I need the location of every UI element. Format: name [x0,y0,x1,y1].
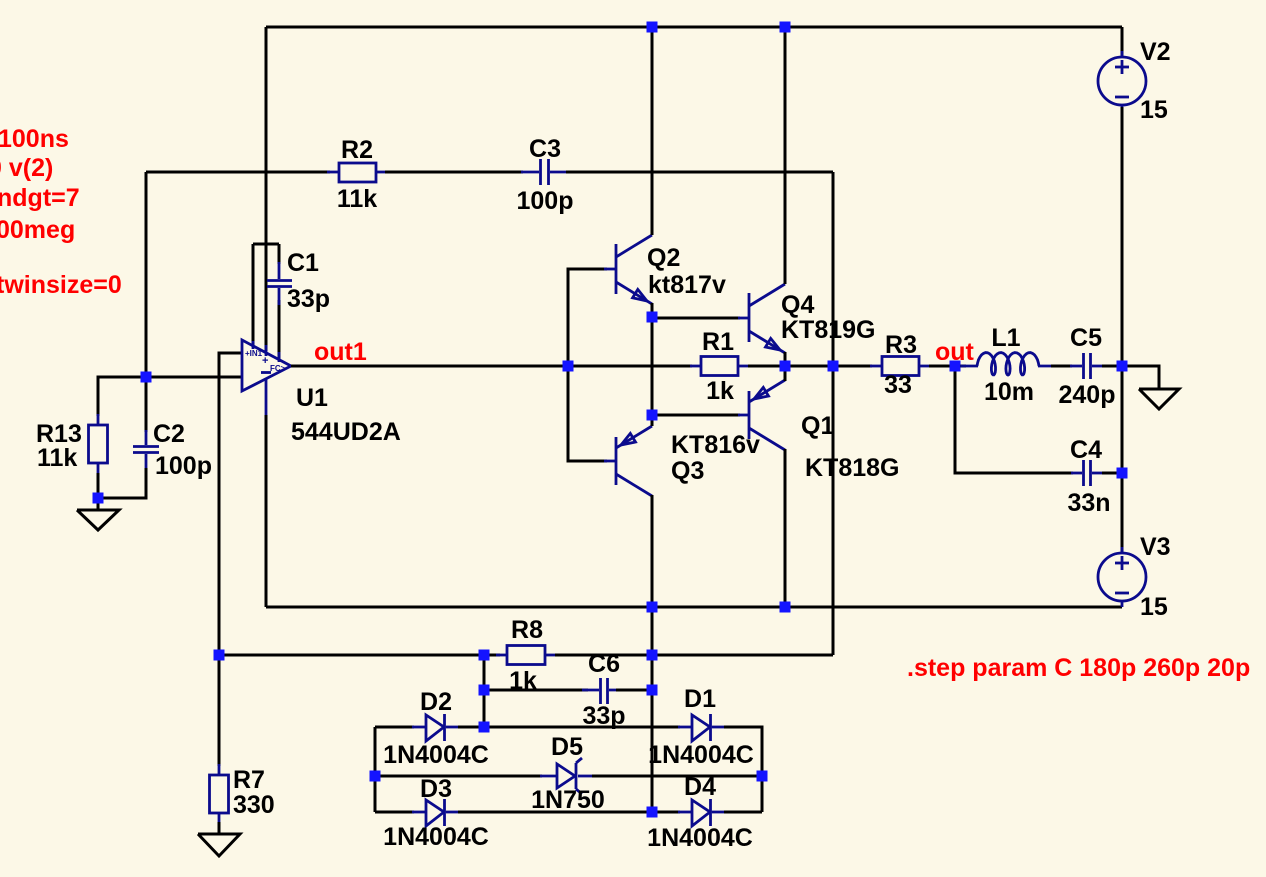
svg-text:C5: C5 [1070,324,1102,352]
wire minus input vertical [145,172,148,432]
svg-text:Q3: Q3 [671,457,704,485]
svg-text:100p: 100p [517,187,574,215]
svg-text:ndgt=7: ndgt=7 [0,184,80,212]
svg-text:0 v(2): 0 v(2) [0,154,53,182]
wire D2 to D1 [458,726,680,729]
svg-text:100p: 100p [155,452,212,480]
svg-text:33n: 33n [1067,489,1110,517]
svg-text:R1: R1 [702,328,734,356]
wire R2 line left [146,171,330,174]
svg-text:C4: C4 [1070,436,1102,464]
junction R13 ground node [93,493,104,504]
junction C5 rail [1117,361,1128,372]
wire R8 right [555,654,833,657]
wire V2 top [1121,27,1124,57]
svg-text:FC>: FC> [270,364,286,373]
wire Q2 emitter to node [651,303,654,317]
svg-text:V3: V3 [1140,533,1171,561]
svg-text:C3: C3 [529,135,561,163]
svg-text:R8: R8 [511,616,543,644]
junction C4 rail [1117,468,1128,479]
wire C6 right [616,689,652,692]
diode D2 1N4004C [412,714,460,741]
svg-text:10m: 10m [984,378,1034,406]
capacitor C4 [1071,460,1104,486]
wire Q2 base loop [568,269,607,366]
svg-text:240p: 240p [1059,381,1116,409]
wire C4 to V3 [1121,473,1124,554]
wire rail C5-C4 [1121,366,1124,473]
svg-text:15: 15 [1140,593,1168,621]
wire C6 line left [484,689,588,692]
junction R8 left [479,650,490,661]
svg-text:D1: D1 [684,685,716,713]
wire C5 to rail [1102,365,1122,368]
wire C4 to rail [1102,472,1122,475]
svg-text:Q4: Q4 [781,291,814,319]
wire D4 right [724,811,762,814]
wire R2 to C3 [385,171,523,174]
svg-text:C1: C1 [287,249,319,277]
svg-text:V2: V2 [1140,38,1171,66]
wire bottom rail [266,606,1122,609]
svg-text:+IN1: +IN1 [245,349,263,358]
capacitor C2 [133,430,159,470]
voltage source V3 [1098,547,1146,607]
transistor Q2 kt817v (npn) [604,235,652,304]
wire D1 right corner [724,727,762,812]
svg-text:twinsize=0: twinsize=0 [0,271,122,299]
svg-text:D5: D5 [551,733,583,761]
svg-text:C2: C2 [153,420,185,448]
svg-text:D3: D3 [420,775,452,803]
wire D5 line left [375,775,542,778]
resistor R3 [870,357,931,376]
svg-text:1N4004C: 1N4004C [383,823,489,851]
wire op-amp output [291,365,692,368]
svg-text:544UD2A: 544UD2A [291,418,401,446]
resistor R8 [496,646,557,665]
wire C1 staple left [252,244,255,347]
svg-text:R3: R3 [885,331,917,359]
svg-text:R7: R7 [233,766,265,794]
junction bottom rail Q3 [647,602,658,613]
junction minus input node [141,372,152,383]
junction out line Q4-Q1 [780,361,791,372]
diode D3 1N4004C [412,799,460,826]
svg-text:00meg: 00meg [0,216,75,244]
wire Q1 collector [784,449,787,607]
wire minus input horizontal [146,376,242,379]
wire out node down to C4 [955,366,1073,473]
junction D2-D1 tap [479,722,490,733]
wire C1 staple right upper [278,244,281,264]
resistor R1 [690,357,750,376]
capacitor C3 [521,159,568,185]
wire right mid vertical [651,607,654,812]
junction feedback node left [214,650,225,661]
wire R8 line [219,654,500,657]
ground right [1139,389,1179,409]
diode D1 1N4004C [678,714,726,741]
svg-text:1N4004C: 1N4004C [648,741,754,769]
svg-text:.step param C 180p 260p 20p: .step param C 180p 260p 20p [907,654,1250,682]
svg-text:11k: 11k [37,444,77,472]
svg-text:100ns: 100ns [0,125,69,153]
wire right ground tap [1122,366,1159,389]
wire D3 lead left [375,811,414,814]
wire V2 to out rail [1121,107,1124,366]
wire C1 staple right lower [278,300,281,360]
junction R8 right [647,650,658,661]
wire R13 bottom [97,473,100,510]
capacitor C1 [267,262,292,305]
svg-text:R2: R2 [341,136,373,164]
diode D4 1N4004C [678,799,726,826]
svg-text:1N4004C: 1N4004C [383,741,489,769]
wire C6 left drop [483,655,486,727]
op-amp U1 544UD2A [242,340,291,415]
transistor Q1 KT818G (pnp) [738,380,785,450]
junction op-amp output node [563,361,574,372]
wire plus input [219,353,242,655]
junction Q3 emitter node [647,410,658,421]
wire L1 to C5 [1051,365,1072,368]
capacitor C5 [1070,353,1104,379]
junction D5 right [757,771,768,782]
wire C1 staple bar [253,243,279,246]
wire D2 lead left [375,726,414,729]
wire top-left drop to op-amp [265,27,268,351]
wire Q4 collector [784,27,787,284]
wire R1 to out node [748,365,872,368]
transistor Q3 KT816v (pnp) [604,426,652,496]
wire C3 to right [566,171,833,174]
wire C2 bottom [98,468,146,498]
svg-text:D4: D4 [684,773,716,801]
svg-text:1k: 1k [706,377,734,405]
svg-text:1N750: 1N750 [531,786,605,814]
svg-text:D2: D2 [420,688,452,716]
junction top rail Q2 [647,22,658,33]
svg-text:Q1: Q1 [801,412,834,440]
capacitor C6 [582,678,627,704]
wire D3 to D4 [458,811,680,814]
svg-text:out1: out1 [314,338,367,366]
junction top rail Q4 [780,22,791,33]
resistor R13 [89,414,108,475]
ground below R7 [198,834,240,856]
wire R3 to out [929,365,966,368]
wire diode box left vertical [374,727,377,812]
junction out node [950,361,961,372]
svg-text:33p: 33p [287,285,330,313]
svg-text:33: 33 [884,371,912,399]
zener diode D5 1N750 [540,758,594,794]
wire Q2-Q3 emitter link [651,317,654,415]
svg-text:+: + [262,355,268,367]
wire Q4 emitter stub [784,352,787,366]
wire op-amp bottom pin [265,415,268,607]
wire feedback left vertical to R7 [218,655,221,766]
svg-text:15: 15 [1140,96,1168,124]
junction C6 right [647,685,658,696]
svg-text:L1: L1 [991,324,1020,352]
junction bottom rail Q1 [780,602,791,613]
svg-text:U1: U1 [296,384,328,412]
svg-text:KT818G: KT818G [805,454,899,482]
inductor L1 [961,365,978,368]
svg-text:kt817v: kt817v [648,271,726,299]
svg-text:KT816v: KT816v [671,431,760,459]
svg-text:C6: C6 [588,650,620,678]
wire R7 bottom [218,822,221,834]
resistor R2 [327,163,387,182]
junction out line feedback tap [828,361,839,372]
voltage source V2 [1098,51,1146,111]
wire Q2 collector [651,27,654,235]
wire Q1 base [652,414,740,417]
resistor R7 [210,764,229,824]
svg-text:Q2: Q2 [647,244,680,272]
wire top rail [266,26,1122,29]
wire feedback right vertical [832,172,835,655]
transistor Q4 KT819G (npn) [738,284,785,353]
wire Q3 collector [651,495,654,607]
junction Q2 emitter node [647,312,658,323]
wire D5 right [592,775,762,778]
junction D3-D4 tap [647,807,658,818]
wire Q1 emitter stub [784,366,787,381]
junction D5 left [370,771,381,782]
svg-text:1N4004C: 1N4004C [647,824,753,852]
wire Q4 base [652,317,740,320]
junction C6 left [479,685,490,696]
wire R13 top [98,377,146,416]
svg-text:KT819G: KT819G [781,316,875,344]
svg-text:330: 330 [233,791,275,819]
svg-text:11k: 11k [337,185,377,213]
wire Q3 base loop [568,366,607,461]
wire Q3 emitter stub [651,415,654,426]
ground below R13 [77,510,119,530]
